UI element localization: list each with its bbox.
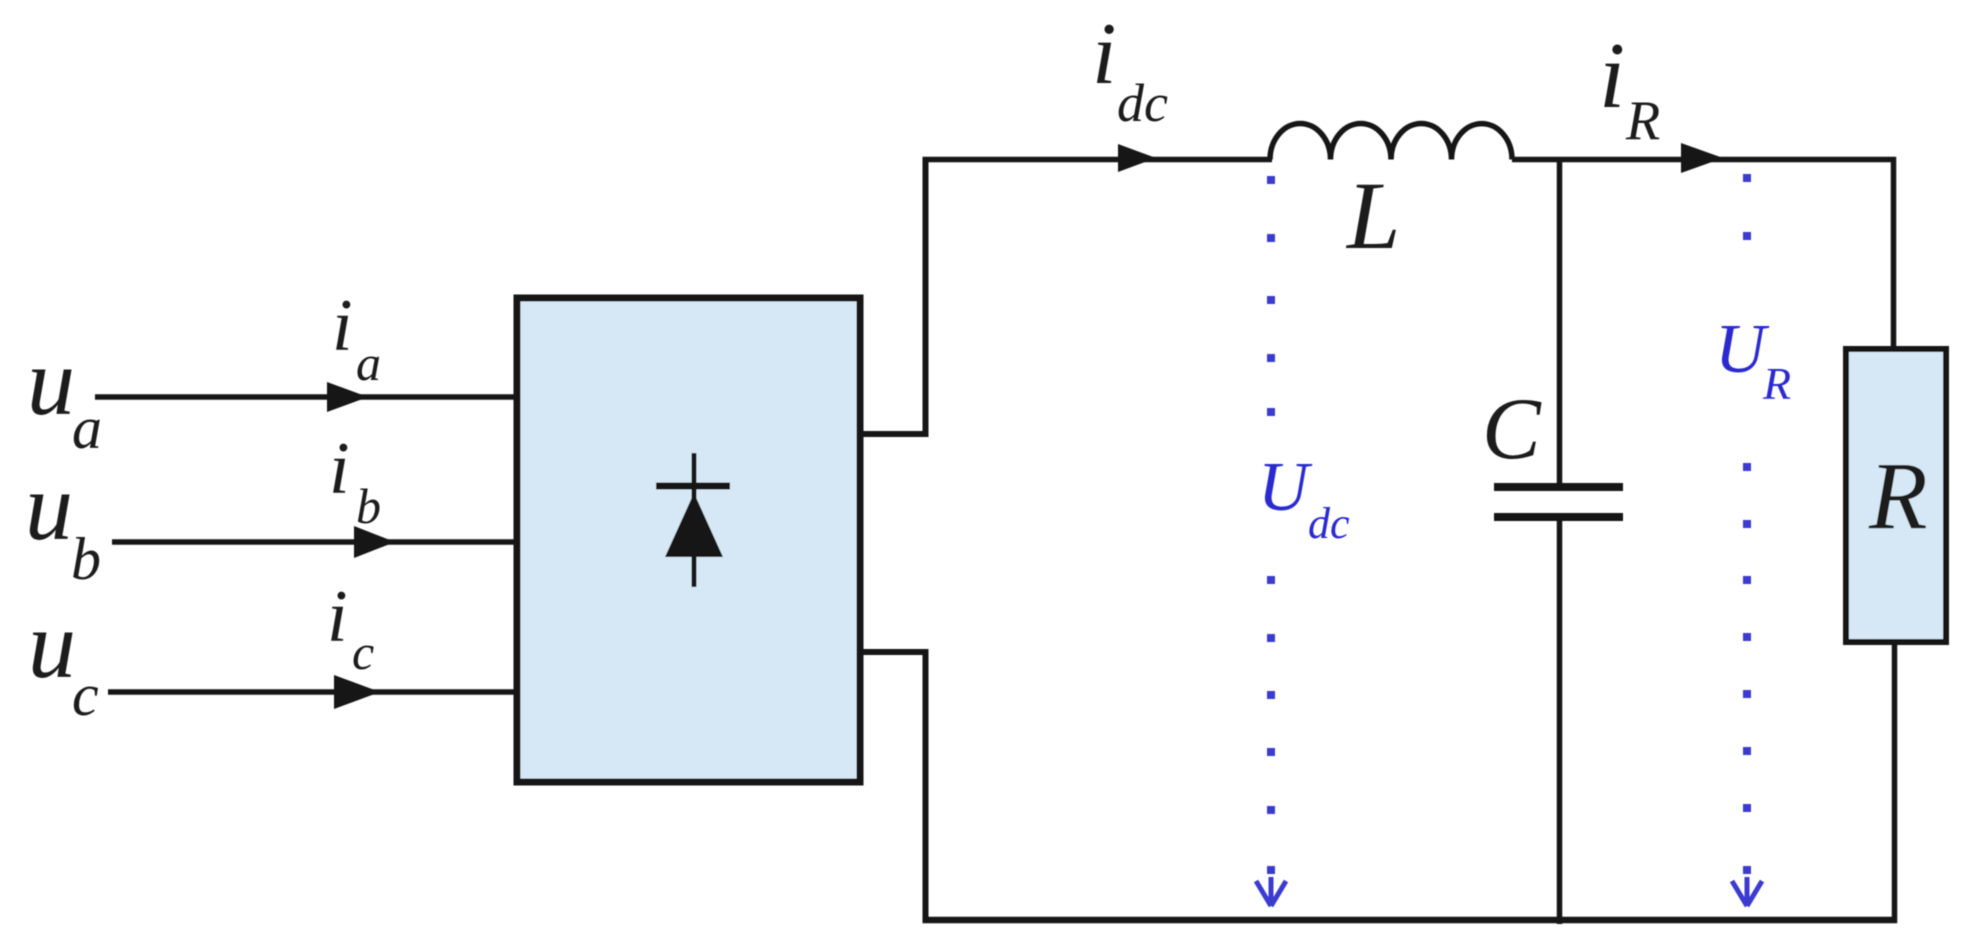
wire bottom return [923, 917, 1898, 924]
svg-text:b: b [71, 526, 101, 592]
diode D1 inside rectifier [656, 453, 730, 587]
svg-text:R: R [1762, 358, 1791, 409]
svg-text:R: R [1625, 90, 1660, 152]
svg-text:dc: dc [1117, 73, 1168, 133]
wire phase b [112, 526, 517, 558]
arrow i_dc [1118, 144, 1156, 172]
svg-text:a: a [356, 335, 381, 391]
voltage label U_dc [1258, 449, 1350, 548]
svg-text:a: a [72, 395, 102, 461]
resistor R [1846, 349, 1946, 642]
svg-text:U: U [1258, 449, 1313, 526]
wire capacitor branch lower [1557, 521, 1563, 924]
svg-text:i: i [327, 576, 348, 658]
rectifier block U1 [517, 298, 860, 782]
current label i_b [329, 428, 381, 534]
node u_c label [28, 591, 99, 728]
capacitor C bottom plate [1494, 513, 1623, 521]
wire resistor to bottom [1892, 642, 1898, 923]
voltage label U_R [1715, 311, 1791, 409]
current label i_a [332, 285, 381, 391]
capacitor C top plate [1494, 483, 1623, 491]
svg-text:i: i [332, 285, 353, 367]
current label i_dc [1092, 6, 1168, 133]
svg-text:R: R [1868, 442, 1928, 549]
arrow U_R down [1732, 877, 1762, 906]
wire vertical up from stub [923, 157, 929, 437]
svg-text:c: c [352, 624, 374, 680]
wire right vertical to resistor [1891, 157, 1897, 352]
current label i_R [1599, 24, 1660, 152]
wire capacitor branch upper [1557, 157, 1563, 483]
wire phase a [95, 382, 517, 412]
svg-text:u: u [25, 453, 73, 560]
node u_b label [25, 453, 101, 592]
wire vertical from rectifier bottom stub [923, 649, 929, 923]
wire inductor to right corner [1512, 157, 1896, 163]
node U_R dotted measurement line [1743, 174, 1751, 874]
node u_a label [27, 328, 102, 461]
wire top horizontal to inductor [923, 157, 1273, 163]
svg-text:i: i [1092, 6, 1116, 103]
wire phase c [108, 675, 517, 709]
svg-text:dc: dc [1308, 499, 1350, 548]
wire rectifier top output stub [857, 431, 928, 437]
svg-text:U: U [1715, 311, 1770, 388]
svg-text:c: c [72, 662, 99, 728]
node U_dc dotted measurement line [1267, 176, 1275, 874]
current label i_c [327, 576, 374, 680]
arrow i_R [1681, 143, 1723, 173]
arrow U_dc down [1256, 877, 1286, 906]
svg-text:C: C [1482, 381, 1542, 478]
wire rectifier bottom output stub [857, 649, 928, 655]
svg-text:i: i [329, 428, 350, 510]
svg-text:i: i [1599, 24, 1625, 128]
inductor L [1270, 124, 1512, 160]
svg-text:b: b [356, 478, 381, 534]
svg-text:L: L [1345, 162, 1400, 269]
svg-text:u: u [27, 328, 75, 435]
svg-text:u: u [28, 591, 76, 698]
